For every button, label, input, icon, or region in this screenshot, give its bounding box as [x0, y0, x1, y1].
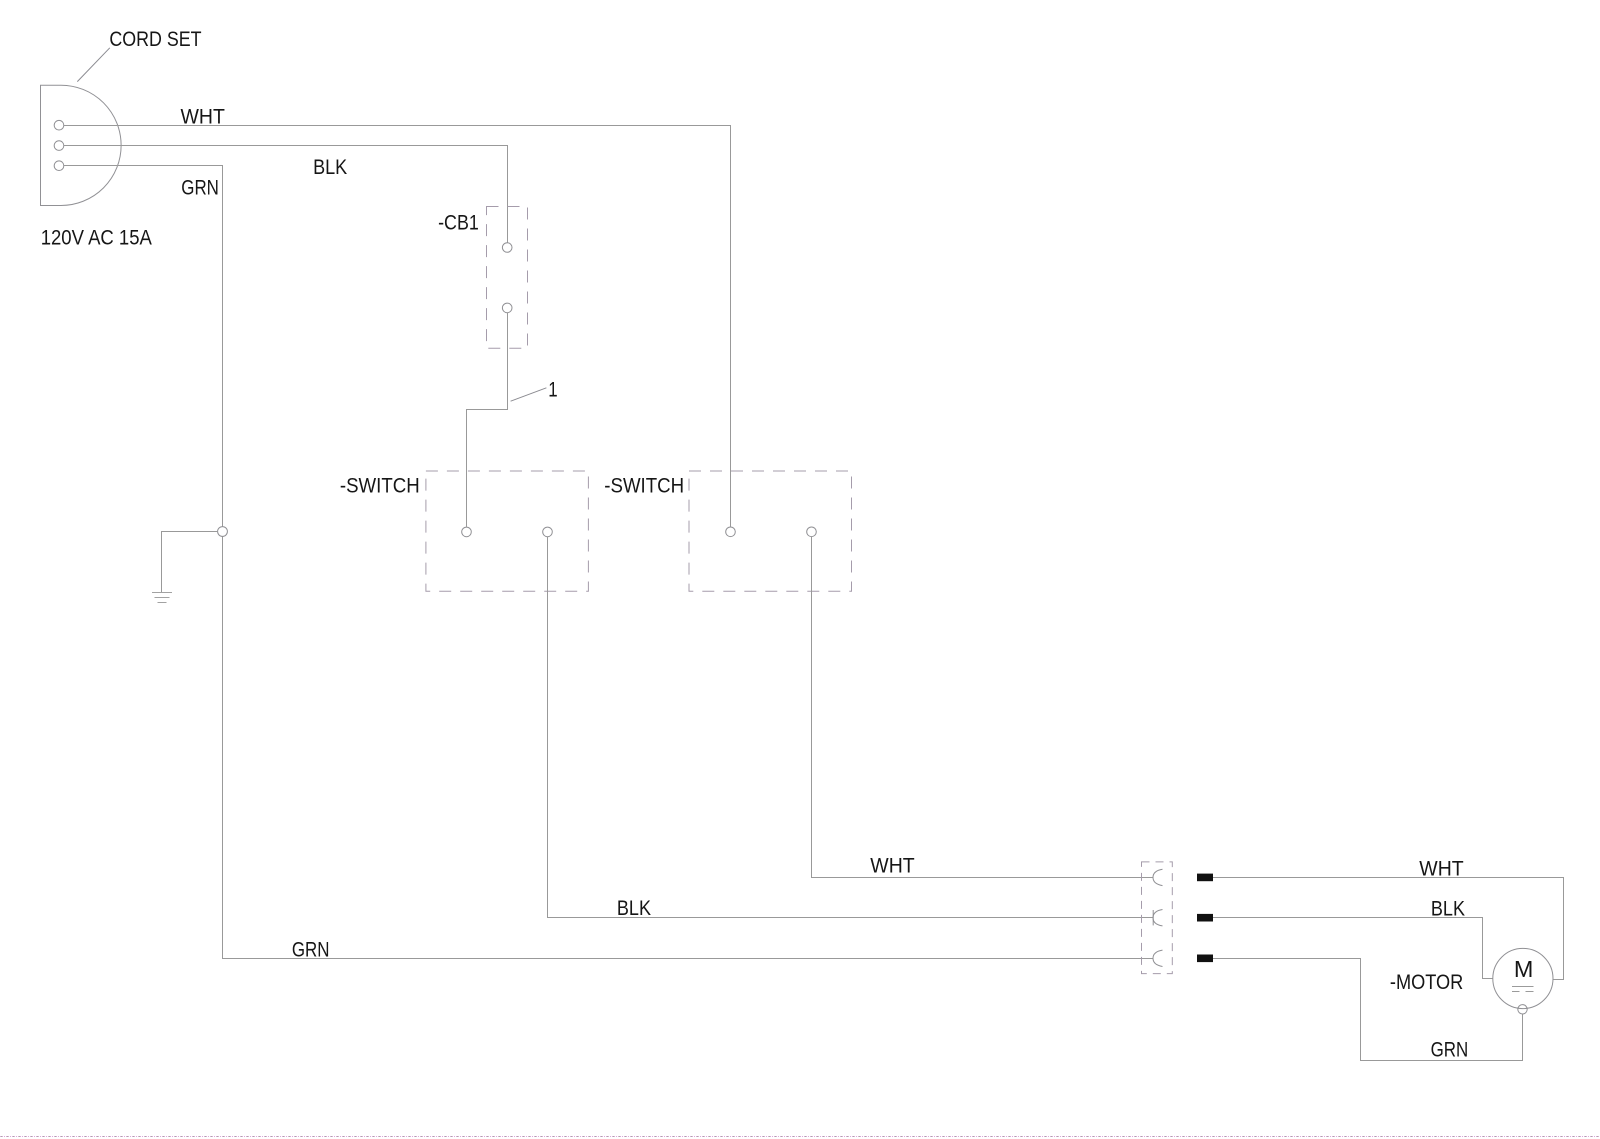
connector J1 dashed enclosure: [1142, 862, 1173, 974]
svg-text:-SWITCH: -SWITCH: [604, 474, 684, 497]
CB1 terminal 1: [502, 243, 512, 253]
svg-text:BLK: BLK: [617, 897, 651, 920]
svg-text:-MOTOR: -MOTOR: [1390, 971, 1463, 994]
CB1 terminal 2: [502, 303, 512, 313]
connector J1 female contact 1 (WHT): [1153, 869, 1163, 885]
cord set pin 1 (WHT): [54, 120, 64, 130]
motor bottom terminal: [1518, 1005, 1527, 1014]
circuit breaker CB1 dashed enclosure: [487, 207, 528, 349]
motor internal mark line 2: [1512, 991, 1520, 993]
switch S2 dashed enclosure: [689, 471, 852, 591]
svg-text:BLK: BLK: [313, 156, 347, 179]
svg-text:WHT: WHT: [181, 105, 226, 128]
switch S2 left terminal: [726, 527, 736, 537]
wire BLK from cord set pin2 to CB1: [64, 146, 508, 243]
svg-text:GRN: GRN: [292, 938, 330, 961]
connector male pin 2 (black): [1197, 914, 1213, 922]
svg-text:GRN: GRN: [181, 177, 219, 200]
connector male pin 3 (black): [1197, 955, 1213, 963]
connector J1 female contact 2 (BLK): [1153, 910, 1163, 926]
wire GRN from cord set pin3 down left side and along bottom to connector: [64, 166, 1153, 959]
connector male pin 1 (black): [1197, 874, 1213, 882]
connector J1 female contact 3 (GRN): [1153, 950, 1163, 966]
cord set pin 2 (BLK): [54, 141, 64, 151]
switch S1 right terminal: [543, 527, 553, 537]
ground symbol: [152, 593, 172, 603]
wire from junction to ground symbol: [162, 532, 218, 593]
wire WHT from switch S2 to connector contact 1: [812, 537, 1154, 878]
leader line for pin 1: [511, 388, 547, 401]
wire WHT from pin 1 to motor right side: [1213, 878, 1564, 980]
motor internal mark line 3: [1526, 991, 1534, 993]
wire BLK from switch S1 to connector contact 2: [548, 537, 1154, 918]
cord set pin 3 (GRN): [54, 161, 64, 171]
wire BLK from pin 2 to motor left side: [1213, 918, 1493, 979]
motor internal mark line 1: [1512, 986, 1534, 988]
svg-text:-SWITCH: -SWITCH: [340, 474, 420, 497]
contact 2 vertical tick: [1152, 910, 1154, 925]
wire WHT from cord set pin1 to switch S2 left terminal: [64, 126, 731, 527]
svg-text:M: M: [1514, 956, 1534, 982]
wire from CB1 terminal 2 to switch S1 left terminal: [467, 313, 508, 527]
svg-text:CORD SET: CORD SET: [109, 28, 201, 51]
leader line from CORD SET label to plug: [77, 48, 110, 82]
svg-text:WHT: WHT: [1419, 858, 1464, 881]
switch S2 right terminal: [807, 527, 817, 537]
wire GRN from pin 3 to motor bottom terminal: [1213, 959, 1523, 1061]
svg-text:WHT: WHT: [870, 854, 915, 877]
junction on GRN wire (ground tap): [218, 527, 228, 537]
switch S1 dashed enclosure: [426, 471, 589, 591]
motor M1 body: [1493, 948, 1553, 1008]
switch S1 left terminal: [462, 527, 472, 537]
svg-text:1: 1: [548, 378, 557, 401]
svg-text:120V AC 15A: 120V AC 15A: [41, 227, 152, 250]
svg-text:GRN: GRN: [1431, 1039, 1469, 1062]
svg-text:BLK: BLK: [1431, 898, 1465, 921]
cord set plug body: [41, 85, 122, 205]
svg-text:-CB1: -CB1: [438, 212, 479, 235]
